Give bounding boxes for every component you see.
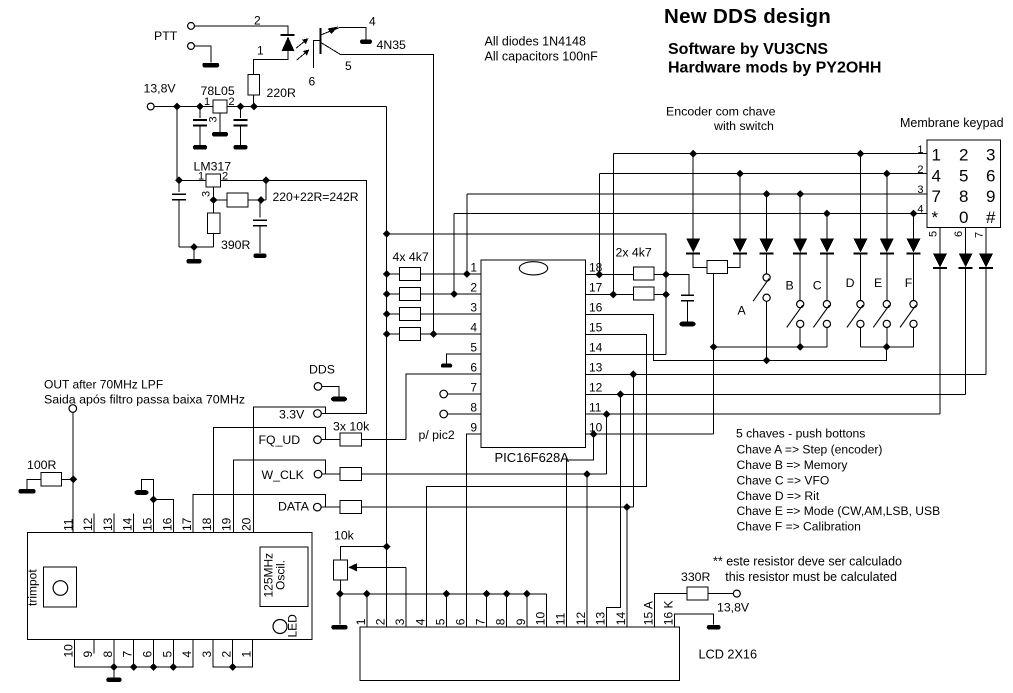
svg-text:6: 6 <box>470 361 477 375</box>
wire PIC pin12 row to keypad col6 <box>585 393 965 395</box>
wire pin17 to bus row1 <box>612 154 614 295</box>
svg-text:1: 1 <box>470 261 477 275</box>
capacitor C3 LM317 input <box>178 180 180 192</box>
lcd box <box>360 627 680 681</box>
wire DDS pin13 stub <box>113 514 115 533</box>
svg-text:3.3V: 3.3V <box>279 408 305 422</box>
oscillator box <box>260 547 308 607</box>
svg-text:FQ_UD: FQ_UD <box>259 433 301 447</box>
svg-text:Membrane keypad: Membrane keypad <box>900 116 1004 130</box>
wire switch A bottom <box>766 301 768 360</box>
resistor 10k FQ_UD <box>340 433 362 446</box>
svg-text:4: 4 <box>917 204 923 216</box>
ground DDS bus <box>113 667 115 677</box>
svg-text:18: 18 <box>200 517 214 531</box>
junction 5V to 10k pot <box>383 543 391 551</box>
terminal PTT pin2 <box>188 23 195 30</box>
wire DDS bottom pin stub <box>153 640 155 668</box>
wire FQ_UD resistor to PIC pin6 <box>362 439 407 441</box>
wire switch F bottom <box>913 328 915 347</box>
svg-text:6: 6 <box>986 166 995 185</box>
diode encoder A <box>692 154 694 239</box>
diode keypad col6 <box>965 228 967 254</box>
resistor 10k DATA <box>340 501 362 514</box>
svg-text:10k: 10k <box>334 529 355 543</box>
svg-text:2x 4k7: 2x 4k7 <box>616 246 652 260</box>
svg-text:9: 9 <box>514 618 528 625</box>
svg-text:13: 13 <box>589 361 603 375</box>
svg-text:13,8V: 13,8V <box>717 601 750 615</box>
svg-text:390R: 390R <box>221 238 251 252</box>
wire switch E bottom <box>886 328 888 347</box>
wire pin18 to bus row2 <box>598 174 600 275</box>
wire PIC pin11 row to keypad col5 <box>585 413 940 415</box>
wire DDS pin17 to DATA <box>193 494 325 532</box>
dds module box <box>28 533 313 640</box>
svg-text:Software by VU3CNS: Software by VU3CNS <box>668 41 828 58</box>
keypad box <box>927 140 1001 228</box>
svg-text:2: 2 <box>220 651 234 658</box>
svg-text:4: 4 <box>180 651 194 658</box>
svg-text:19: 19 <box>220 517 234 531</box>
svg-text:Chave B => Memory: Chave B => Memory <box>737 458 849 472</box>
svg-text:13: 13 <box>594 612 608 626</box>
terminal DATA <box>314 503 322 511</box>
wire DDS bottom pin stub <box>133 640 135 668</box>
svg-text:Oscil.: Oscil. <box>274 560 288 590</box>
wire LCD pin9 stub <box>526 594 528 627</box>
svg-text:E: E <box>874 276 882 290</box>
wire 5V to 2x4k7 commons <box>387 234 666 354</box>
svg-text:12: 12 <box>574 612 588 626</box>
svg-text:B: B <box>786 279 794 293</box>
wire switch DEF bottoms bus <box>860 346 913 348</box>
junction pin4 column <box>430 330 438 338</box>
wire pin11 to W_CLK row <box>606 414 608 474</box>
wire FQ_UD to resistor <box>322 439 341 441</box>
diode switch A <box>766 194 768 239</box>
svg-text:100R: 100R <box>27 458 57 472</box>
svg-text:7: 7 <box>974 232 986 238</box>
svg-text:7: 7 <box>121 651 135 658</box>
wire PIC pin14 VDD <box>585 353 666 355</box>
wire encoder common <box>713 274 715 435</box>
terminal FQ_UD <box>314 436 322 444</box>
svg-text:10: 10 <box>61 644 75 658</box>
svg-text:20: 20 <box>240 517 254 531</box>
svg-text:330R: 330R <box>681 570 711 584</box>
wire 13.8V rail <box>154 106 387 108</box>
diode keypad col5 <box>939 228 941 254</box>
wire PTT pin2 to opto LED cathode <box>195 26 288 35</box>
wire encoder A to body <box>693 254 707 268</box>
junction rail-cap2 <box>237 103 245 111</box>
svg-text:6: 6 <box>141 651 155 658</box>
wire 5V vertical feed <box>386 107 388 628</box>
svg-text:4x 4k7: 4x 4k7 <box>393 250 429 264</box>
svg-text:this resistor must be calculat: this resistor must be calculated <box>725 570 897 584</box>
junction 5V pullup row2 <box>383 290 391 298</box>
svg-text:A: A <box>738 304 747 318</box>
junction adj node <box>210 196 218 204</box>
junction rail-cap1 <box>196 103 204 111</box>
svg-text:14: 14 <box>121 517 135 531</box>
switch B <box>799 254 801 301</box>
resistor 4k7 c <box>387 313 400 315</box>
terminal PTT pin1 <box>188 43 195 50</box>
diode switch E <box>886 174 888 239</box>
svg-text:4: 4 <box>414 618 428 625</box>
switch C <box>826 254 828 301</box>
svg-text:4: 4 <box>369 15 376 29</box>
wire W_CLK to resistor <box>322 473 340 475</box>
transistor Q1 emitter <box>321 43 341 55</box>
ground PTT <box>202 63 219 68</box>
wire pot bottom to ground bus <box>340 580 342 594</box>
svg-text:8: 8 <box>470 401 477 415</box>
svg-text:7: 7 <box>932 187 941 206</box>
wire emitter pin5 to PIC pin4 column <box>341 55 434 335</box>
wire keypad col7 to PIC pin13 <box>985 268 987 374</box>
encoder body <box>707 261 728 274</box>
svg-text:PIC16F628A: PIC16F628A <box>495 450 570 465</box>
svg-text:13,8V: 13,8V <box>144 82 177 96</box>
svg-text:6: 6 <box>309 75 316 89</box>
svg-text:10: 10 <box>589 421 603 435</box>
svg-text:New DDS design: New DDS design <box>664 5 831 28</box>
svg-text:15: 15 <box>589 321 603 335</box>
trimpot box <box>43 567 76 607</box>
led indicator <box>273 620 287 634</box>
svg-text:17: 17 <box>180 517 194 531</box>
svg-text:8: 8 <box>494 618 508 625</box>
svg-text:5: 5 <box>928 231 940 237</box>
wire pin1 to bus row3 <box>466 194 468 274</box>
svg-text:3: 3 <box>201 191 213 197</box>
wire DDS terminal to ground <box>322 386 339 396</box>
svg-text:*: * <box>932 208 939 227</box>
wire W_CLK row <box>362 473 607 475</box>
wire 78L05 pin3 to ground <box>219 113 221 132</box>
wire LCD pin1 stub <box>366 594 368 627</box>
junction output-242R <box>262 176 270 184</box>
svg-text:13: 13 <box>101 517 115 531</box>
wire DATA row <box>362 506 634 508</box>
regulator LM317 box <box>206 174 221 187</box>
junction LM317 input cap <box>175 176 183 184</box>
svg-text:** este resistor deve ser calc: ** este resistor deve ser calculado <box>713 555 902 569</box>
terminal 13.8V backlight <box>733 590 740 597</box>
svg-text:C: C <box>813 279 822 293</box>
wire 390R bottom bus <box>213 234 215 248</box>
wire pin10 to LCD pin11 <box>567 434 594 627</box>
light arrow 1 <box>296 40 306 48</box>
svg-text:2: 2 <box>374 618 388 625</box>
svg-text:3x 10k: 3x 10k <box>333 420 370 434</box>
resistor 4k7 d <box>387 333 400 335</box>
ic PIC16F628A box <box>481 260 586 448</box>
svg-text:LCD 2X16: LCD 2X16 <box>699 648 758 662</box>
svg-text:p/ pic2: p/ pic2 <box>419 428 455 442</box>
svg-text:#: # <box>986 208 996 227</box>
svg-text:1: 1 <box>932 146 941 165</box>
wire PTT pin1 to ground <box>195 46 212 63</box>
wire DDS pin15 to ground <box>142 480 154 533</box>
wire W_CLK to LCD pin12 <box>586 474 588 627</box>
svg-text:2: 2 <box>229 96 235 108</box>
ground 78L05 <box>212 132 228 137</box>
wire DDS pin2 stub <box>232 640 234 668</box>
wire DDS bottom ground bus B <box>213 640 253 668</box>
diode switch D <box>859 154 861 239</box>
svg-text:2: 2 <box>470 281 477 295</box>
svg-text:6: 6 <box>454 618 468 625</box>
wire PIC pin16 to switches ADEF <box>585 314 886 360</box>
diode keypad col7 <box>985 228 987 254</box>
junction pin2 column <box>450 290 458 298</box>
wire DDS bottom pin stub <box>172 640 174 668</box>
wire PIC pin17 row <box>585 294 633 296</box>
svg-text:6: 6 <box>953 231 965 237</box>
resistor 390R <box>213 200 215 213</box>
wire PIC pin15 to LCD pin4 <box>427 334 647 627</box>
svg-text:3: 3 <box>470 301 477 315</box>
wire LCD pin15 to 330R <box>654 594 687 627</box>
terminal OUT <box>69 405 77 413</box>
capacitor C4 LM317 output <box>259 200 261 218</box>
wire DDS bottom ground bus A <box>74 640 193 668</box>
svg-text:7: 7 <box>470 381 477 395</box>
svg-text:5: 5 <box>959 166 968 185</box>
svg-text:W_CLK: W_CLK <box>262 468 305 482</box>
potentiometer 10k <box>334 560 348 580</box>
svg-text:4N35: 4N35 <box>377 38 407 52</box>
svg-text:2: 2 <box>959 146 968 165</box>
junction 5V pullup row4 <box>383 330 391 338</box>
wire 5V to pot top <box>341 547 387 561</box>
wire PIC pin13 row to keypad col7 <box>585 373 986 375</box>
resistor 2x4k7 a <box>633 267 654 280</box>
diode encoder B <box>739 174 741 239</box>
svg-text:2: 2 <box>254 14 261 28</box>
junction pin1 column <box>463 270 471 278</box>
resistor 100R <box>41 473 62 487</box>
wire PIC pin18 row <box>585 274 633 276</box>
wire bus row2 <box>599 173 927 175</box>
diode switch C <box>826 214 828 239</box>
ground LM317 bus <box>193 247 195 259</box>
terminal 3.3V <box>314 410 322 418</box>
capacitor C2 output <box>240 107 242 119</box>
svg-text:5: 5 <box>470 341 477 355</box>
svg-text:1: 1 <box>204 96 210 108</box>
opto-LED U1 triangle <box>282 37 295 52</box>
transistor Q1 4N35 base bar <box>319 28 321 54</box>
svg-text:1: 1 <box>198 171 204 183</box>
resistor 2x4k7 b <box>633 287 654 300</box>
capacitor C5 decoupling <box>681 294 694 296</box>
svg-text:10: 10 <box>534 612 548 626</box>
junction rail-LM317 <box>173 103 181 111</box>
resistor 220R <box>248 74 260 95</box>
svg-text:8: 8 <box>959 187 968 206</box>
wire 220R to 5V rail <box>253 95 255 107</box>
wire PIC pin5 to ground <box>447 354 481 363</box>
svg-text:9: 9 <box>470 421 477 435</box>
wire DDS pin12 stub <box>93 514 95 533</box>
svg-text:Chave D => Rit: Chave D => Rit <box>737 489 820 503</box>
wire switch C bottom <box>826 328 828 347</box>
svg-text:15: 15 <box>141 517 155 531</box>
svg-text:D: D <box>846 276 855 290</box>
switch A <box>766 254 768 274</box>
svg-text:1: 1 <box>257 44 264 58</box>
wire bus row3 <box>467 193 927 195</box>
capacitor C1 input <box>199 107 201 119</box>
svg-text:1: 1 <box>917 144 923 156</box>
svg-text:1: 1 <box>240 651 254 658</box>
terminal W_CLK <box>314 470 322 478</box>
svg-text:F: F <box>905 276 913 290</box>
svg-text:DATA: DATA <box>278 500 310 514</box>
wire DATA to LCD pin14 <box>626 507 628 627</box>
svg-text:7: 7 <box>474 618 488 625</box>
svg-text:14: 14 <box>614 612 628 626</box>
wire DDS pin19 to W_CLK <box>234 460 326 532</box>
svg-text:3: 3 <box>393 618 407 625</box>
transistor Q1 collector <box>321 28 339 35</box>
light arrow 2 <box>297 52 308 61</box>
terminal DDS <box>314 383 322 391</box>
svg-text:All diodes 1N4148: All diodes 1N4148 <box>485 34 587 48</box>
wire keypad col6 to PIC pin12 <box>965 268 967 394</box>
wire 5V to decoupling cap <box>666 275 689 296</box>
junction 5V pullup row1 <box>383 270 391 278</box>
svg-text:9: 9 <box>81 651 95 658</box>
svg-text:trimpot: trimpot <box>26 569 40 606</box>
svg-text:11: 11 <box>554 612 568 625</box>
svg-text:PTT: PTT <box>154 29 178 43</box>
resistor 330R <box>687 587 708 600</box>
svg-text:220+22R=242R: 220+22R=242R <box>273 190 359 204</box>
ground LCD bus <box>339 594 341 625</box>
wire LCD pin7 stub <box>486 594 488 627</box>
svg-text:with switch: with switch <box>713 119 774 133</box>
wire PIC pin6 to FQ_UD resistor <box>406 374 481 440</box>
svg-text:11: 11 <box>589 401 602 415</box>
resistor 242R <box>227 193 248 207</box>
wire 242R to output cap <box>248 199 266 201</box>
wire pin12 to LCD pin13 <box>607 394 621 627</box>
wire 330R to 13.8V terminal <box>708 593 733 595</box>
svg-text:5: 5 <box>345 59 352 73</box>
svg-text:Hardware mods by PY2OHH: Hardware mods by PY2OHH <box>668 60 881 77</box>
terminal 13.8V input <box>147 103 154 110</box>
terminal PIC pin8 <box>440 410 448 418</box>
svg-text:Chave C => VFO: Chave C => VFO <box>737 474 830 488</box>
resistor 4k7 a <box>387 273 400 275</box>
svg-text:3: 3 <box>208 116 220 122</box>
svg-text:9: 9 <box>986 187 995 206</box>
resistor 4k7 b <box>387 293 400 295</box>
wire switch BC bottoms bus <box>714 346 827 348</box>
resistor 10k W_CLK <box>340 468 362 481</box>
wire DDS pin20 to 3.3V <box>254 407 326 532</box>
svg-text:Chave A => Step (encoder): Chave A => Step (encoder) <box>737 443 883 457</box>
junction rail-220R <box>250 103 258 111</box>
wire bus row4 <box>454 213 927 215</box>
junction 5V to 2x4k7 <box>383 230 391 238</box>
wire LCD pin16 to ground <box>674 614 713 627</box>
wire LCD pin10 stub <box>546 594 548 627</box>
wire switch D bottom <box>859 328 861 347</box>
wire LM317 output 3.3V <box>221 180 367 413</box>
diode switch F <box>913 214 915 239</box>
svg-text:OUT after 70MHz LPF: OUT after 70MHz LPF <box>44 378 163 392</box>
svg-text:3: 3 <box>200 651 214 658</box>
svg-text:16 K: 16 K <box>661 601 675 626</box>
wire 100R to ground <box>27 479 41 489</box>
svg-text:14: 14 <box>589 341 603 355</box>
wire DATA to resistor <box>321 506 340 508</box>
diode switch B <box>799 194 801 239</box>
svg-text:3: 3 <box>917 184 923 196</box>
svg-text:5: 5 <box>433 618 447 625</box>
svg-text:Chave F => Calibration: Chave F => Calibration <box>737 519 861 533</box>
wire pin2 to bus row4 <box>453 214 455 295</box>
svg-text:Chave E => Mode (CW,AM,LSB, US: Chave E => Mode (CW,AM,LSB, USB <box>737 504 941 518</box>
svg-text:4: 4 <box>470 321 477 335</box>
svg-text:5 chaves - push bottons: 5 chaves - push bottons <box>736 426 865 440</box>
opto-LED U1 cathode bar <box>281 34 295 36</box>
wire switch B bottom <box>799 328 801 347</box>
svg-text:11: 11 <box>61 518 75 531</box>
svg-text:15 A: 15 A <box>641 601 655 625</box>
regulator 78L05 box <box>213 100 227 113</box>
wire PIC pin9 to LCD pin6 <box>467 434 481 627</box>
wire wiper to LCD pin3 <box>405 567 407 627</box>
pot wiper arrow <box>352 566 406 568</box>
wire LM317 adj pin3 <box>214 187 228 200</box>
svg-text:DDS: DDS <box>309 363 335 377</box>
wire opto LED anode to 220R <box>254 51 288 74</box>
svg-text:8: 8 <box>101 651 115 658</box>
wire LCD pin8 stub <box>506 594 508 627</box>
wire OUT to DDS pin11 <box>72 413 74 533</box>
svg-text:220R: 220R <box>267 86 297 100</box>
wire base pin6 <box>314 40 321 68</box>
switch E <box>886 254 888 301</box>
wire DDS pin14 stub <box>133 514 135 533</box>
svg-text:12: 12 <box>589 381 603 395</box>
wire DDS pin16 to pin15 <box>154 500 174 533</box>
svg-text:All capacitors 100nF: All capacitors 100nF <box>485 49 599 63</box>
switch F <box>913 254 915 301</box>
wire DDS pin9 stub <box>93 640 95 654</box>
svg-text:12: 12 <box>81 517 95 531</box>
wire collector to pin4 ground <box>339 28 366 40</box>
wire bus row1 <box>613 153 927 155</box>
ground pin 4 <box>360 40 372 44</box>
wire DDS bottom pin stub <box>113 640 115 668</box>
wire DDS pin18 to FQ_UD <box>213 427 325 532</box>
wire LCD ground bus <box>340 593 547 595</box>
terminal PIC pin7 <box>440 390 448 398</box>
svg-text:16: 16 <box>589 301 603 315</box>
svg-text:17: 17 <box>589 281 603 295</box>
svg-text:0: 0 <box>959 208 968 227</box>
wire keypad col5 to PIC pin11 <box>939 268 941 414</box>
